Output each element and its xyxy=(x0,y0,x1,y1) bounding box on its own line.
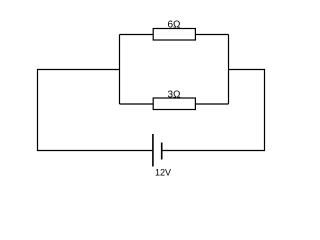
node B: parallel-block right junction (vertical bus) xyxy=(228,35,230,105)
svg-text:6Ω: 6Ω xyxy=(167,19,181,30)
node A: parallel-block left junction (vertical bus) xyxy=(119,35,121,105)
battery B1 positive plate (long) xyxy=(152,134,154,167)
wire: from battery negative plate along bottom and up right side to node B xyxy=(162,70,264,151)
svg-text:12V: 12V xyxy=(155,167,171,177)
wire: left lead from node A down-left and along bottom to battery positive plate xyxy=(38,70,153,151)
wire: bottom branch through resistor R2 xyxy=(120,103,229,105)
svg-text:3Ω: 3Ω xyxy=(167,89,181,100)
resistor R1 body (6 ohm, top branch) xyxy=(153,29,195,41)
battery B1 negative plate (short) xyxy=(161,143,163,160)
wire: top branch through resistor R1 xyxy=(120,34,229,36)
resistor R2 body (3 ohm, bottom branch) xyxy=(153,98,195,110)
